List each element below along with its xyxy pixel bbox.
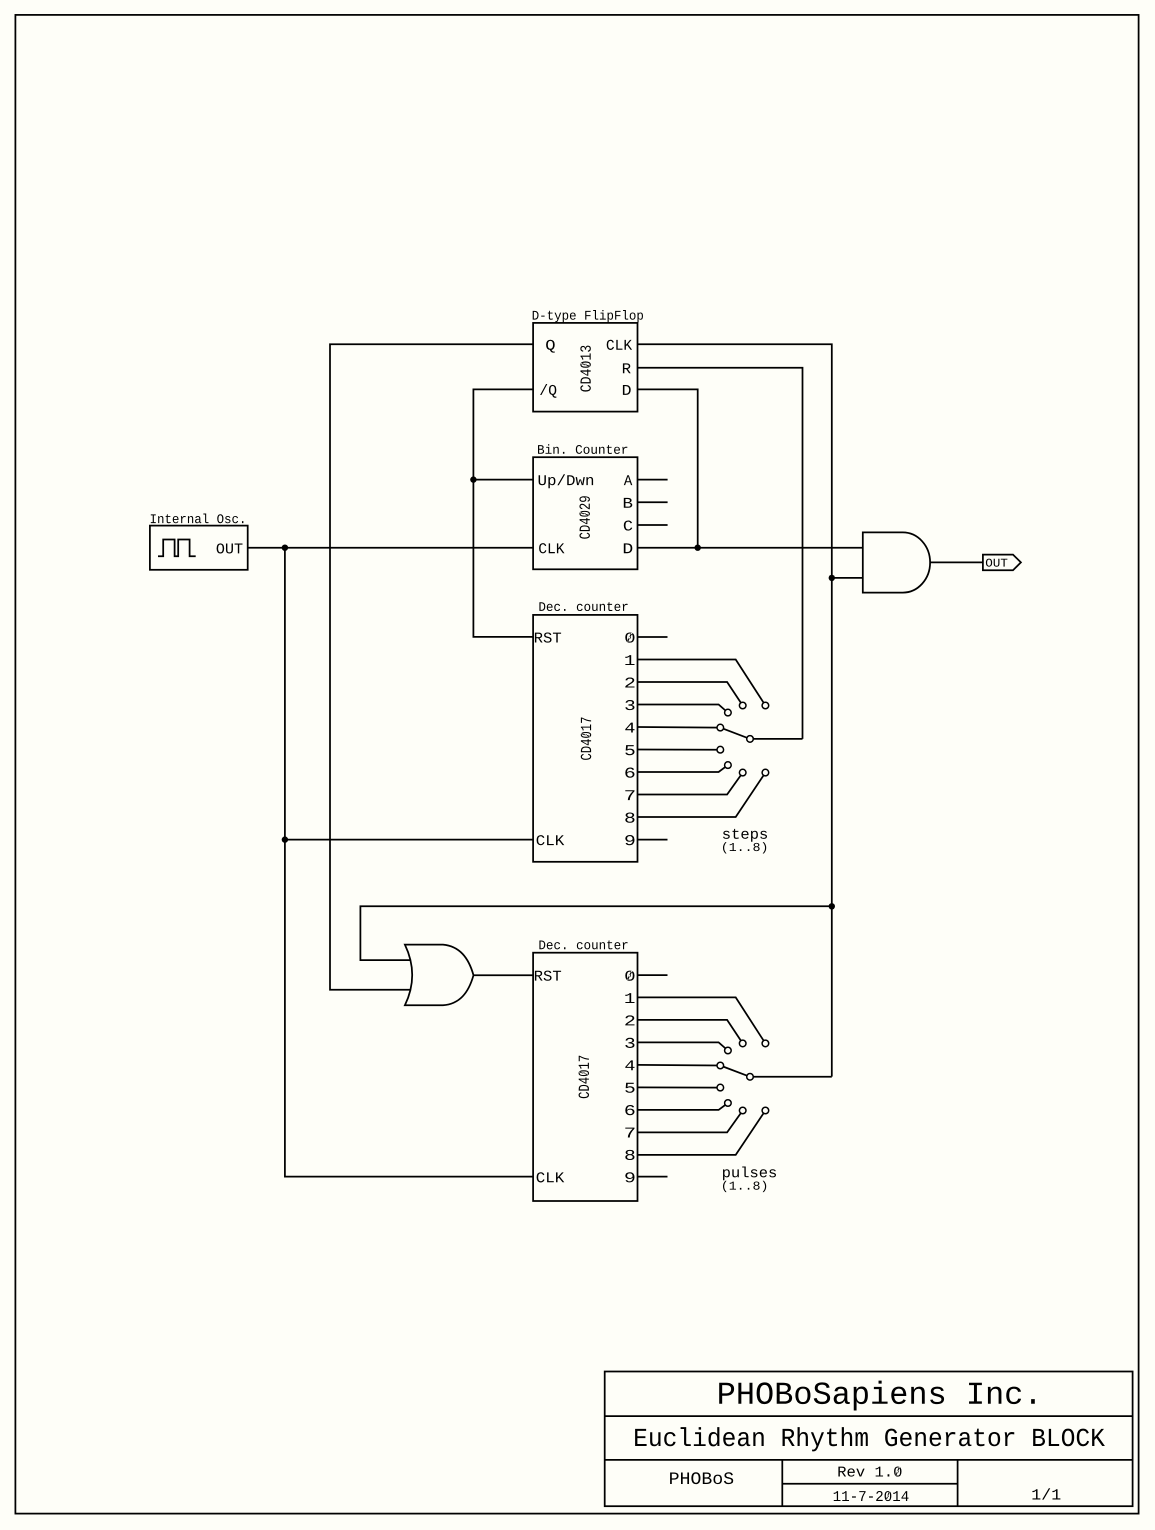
block label Dec. counter	[539, 940, 627, 949]
SW1 terminal 2	[739, 702, 746, 709]
wire: U3 out 2 to SW1 terminal 2	[638, 682, 743, 706]
block label Bin. Counter	[538, 444, 627, 454]
SW2 wiper arm and common wire	[720, 1066, 832, 1077]
wire: CD4029 D output to AND gate input 1	[638, 547, 863, 549]
chip name CD4017	[581, 717, 592, 759]
pin stub: U4 out 0	[638, 974, 668, 976]
wire: U4 out 5 to SW2 terminal 5	[638, 1086, 721, 1088]
oscillator box outline	[150, 526, 248, 570]
wire: AND gate output to OUT connector	[930, 561, 983, 563]
binary counter U2 CD4029	[533, 444, 637, 569]
label pulses	[723, 1166, 776, 1180]
pin label 8	[625, 813, 634, 823]
rotary switch SW1 steps	[638, 660, 803, 854]
wire: U1 /Q output to CD4029 Up/Dwn and upper CD4017 RST	[473, 389, 533, 637]
title block divider rows	[605, 1415, 1133, 1417]
pin stub: U3 out 9	[638, 839, 668, 841]
pin label 5	[625, 745, 634, 755]
decade counter U3 CD4017 (steps)	[533, 602, 637, 862]
oscillator OSC1 Internal Osc.	[150, 514, 248, 570]
pin stub: U4 out 9	[638, 1176, 668, 1178]
pin label 7	[625, 790, 634, 800]
SW1 terminal 4	[717, 724, 724, 731]
wire: main clock vertical down to lower CD4017 CLK	[285, 548, 533, 1177]
U3 box outline	[533, 615, 637, 862]
pin stub: U2 C	[638, 524, 668, 526]
label (1..8)	[723, 842, 766, 853]
pin label D	[624, 543, 633, 553]
net name OUT	[986, 559, 1008, 567]
SW1 wiper arm and common wire	[720, 728, 802, 739]
output connector OUT	[983, 555, 1021, 571]
wire: U4 out 4 to SW2 terminal 4	[638, 1064, 721, 1067]
SW2 terminal 7	[739, 1107, 746, 1114]
pin label C	[624, 520, 633, 530]
pin label A	[624, 475, 633, 485]
pin label RST	[535, 632, 561, 642]
pin label 1	[625, 993, 634, 1003]
SW2 terminal 6	[725, 1100, 732, 1107]
block label D-type FlipFlop	[533, 310, 643, 322]
wire: U4 out 8 to SW2 terminal 8	[638, 1111, 766, 1155]
wire: U4 out 1 to SW2 terminal 1	[638, 997, 766, 1043]
decade counter U4 CD4017 (pulses)	[533, 940, 637, 1201]
pin label 0	[625, 971, 634, 981]
wire: U3 out 3 to SW1 terminal 3	[638, 705, 728, 713]
U1 box outline	[533, 323, 637, 412]
pin label Up/Dwn	[539, 474, 594, 488]
pin label /Q	[540, 384, 556, 398]
label steps	[723, 829, 767, 842]
SW2 terminal 2	[739, 1040, 746, 1047]
pin label 6	[625, 1105, 634, 1115]
wire: OR gate output to lower CD4017 RST	[474, 974, 534, 976]
wire: U4 out 7 to SW2 terminal 7	[638, 1111, 743, 1133]
wire: branch to AND gate input 2	[832, 577, 863, 579]
wire: branch to CD4029 Up/Dwn	[473, 479, 533, 481]
pin label 3	[625, 700, 634, 710]
chip name CD4017	[579, 1056, 590, 1098]
pin label CLK	[539, 543, 564, 553]
SW1 terminal 7	[739, 769, 746, 776]
pin label OUT	[217, 543, 243, 553]
pin label 9	[625, 1172, 634, 1182]
wire: U1 R input from steps switch wiper	[638, 368, 803, 739]
revision Rev 1.0	[838, 1466, 901, 1476]
OR gate U5	[405, 945, 474, 1006]
label (1..8)	[723, 1181, 766, 1192]
pin label RST	[535, 971, 561, 981]
junction: CLK net at OR branch	[829, 903, 835, 909]
pin label 9	[625, 835, 634, 845]
pin label D	[623, 385, 631, 395]
wire: branch to OR gate input 1	[360, 906, 831, 960]
wire: U1 D input from CD4029 D node	[638, 389, 698, 547]
drawing title Euclidean Rhythm Generator BLOCK	[635, 1427, 1105, 1451]
SW2 terminal 4	[717, 1062, 724, 1069]
SW2 terminal 5	[717, 1084, 724, 1091]
wire: U3 out 4 to SW1 terminal 4	[638, 726, 721, 729]
AND gate U6	[863, 532, 930, 592]
wire: U3 out 6 to SW1 terminal 6	[638, 765, 728, 772]
wire: U1 Q output to OR gate input 2	[330, 344, 533, 989]
wire: U4 out 6 to SW2 terminal 6	[638, 1103, 728, 1110]
wire: U4 out 3 to SW2 terminal 3	[638, 1042, 728, 1050]
U4 box outline	[533, 953, 637, 1201]
date 11-7-2014	[834, 1491, 909, 1501]
pin label 2	[625, 677, 634, 687]
pin stub: U2 A	[638, 479, 668, 481]
sheet 1/1	[1032, 1488, 1060, 1499]
wire: U1 CLK input from pulses switch wiper	[638, 344, 832, 1076]
wire: branch to upper CD4017 CLK	[285, 839, 533, 841]
pin label CLK	[537, 1172, 565, 1182]
chip name CD4013	[580, 346, 591, 392]
SW2 wiper contact	[747, 1074, 754, 1081]
SW2 terminal 8	[762, 1107, 769, 1114]
wire: oscillator OUT to CD4029 CLK	[248, 547, 533, 549]
pin label R	[623, 363, 631, 373]
wire: U3 out 7 to SW1 terminal 7	[638, 773, 743, 795]
wire: U3 out 1 to SW1 terminal 1	[638, 660, 766, 706]
pin label CLK	[537, 835, 565, 845]
pin label 8	[625, 1150, 634, 1160]
title block	[605, 1372, 1133, 1507]
pin label 0	[625, 632, 634, 642]
junction: CLK net at AND input branch	[829, 575, 835, 581]
wire: U4 out 2 to SW2 terminal 2	[638, 1020, 743, 1044]
pin label 3	[625, 1038, 634, 1048]
SW1 terminal 6	[725, 762, 732, 769]
title block outline	[605, 1372, 1133, 1507]
junction: clock branch to upper CD4017	[282, 836, 288, 842]
pin stub: U2 B	[638, 501, 668, 503]
block label Internal Osc.	[151, 514, 244, 524]
OUT flag outline	[983, 555, 1021, 571]
SW1 terminal 5	[717, 746, 724, 753]
square wave symbol	[158, 540, 196, 557]
pin label 5	[625, 1083, 634, 1093]
pin label CLK	[607, 340, 632, 350]
block label Dec. counter	[539, 602, 627, 611]
author PHOBoS	[670, 1472, 733, 1484]
pin label 1	[625, 655, 634, 665]
SW1 terminal 1	[762, 702, 769, 709]
wire: U3 out 5 to SW1 terminal 5	[638, 749, 721, 751]
pin label Q	[546, 340, 555, 353]
wire: U3 out 8 to SW1 terminal 8	[638, 773, 766, 817]
pin label 4	[625, 723, 634, 733]
SW1 terminal 8	[762, 769, 769, 776]
pin label 2	[625, 1015, 634, 1025]
U2 box outline	[533, 457, 637, 569]
company name PHOBoSapiens Inc.	[719, 1381, 1035, 1411]
junction: D feedback on clock row	[695, 545, 701, 551]
SW1 wiper contact	[747, 736, 754, 743]
D-type flip-flop U1 CD4013	[533, 310, 643, 412]
SW1 terminal 3	[725, 709, 732, 716]
junction: clock node at oscillator output	[282, 545, 288, 551]
pin label 4	[625, 1060, 634, 1070]
pin label 7	[625, 1128, 634, 1138]
chip name CD4029	[579, 496, 590, 539]
junction: /Q node at Up/Dwn branch	[470, 476, 476, 482]
pin label B	[624, 498, 633, 508]
rotary switch SW2 pulses	[638, 997, 832, 1192]
pin label 6	[625, 768, 634, 778]
SW2 terminal 1	[762, 1040, 769, 1047]
SW2 terminal 3	[725, 1047, 732, 1054]
pin stub: U3 out 0	[638, 636, 668, 638]
